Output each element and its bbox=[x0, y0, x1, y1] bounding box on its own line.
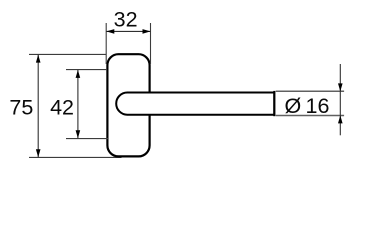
arrowhead 75 bottom bbox=[36, 149, 41, 157]
arrowhead 42 top bbox=[76, 70, 81, 78]
arrowhead 32 left bbox=[106, 29, 114, 34]
extension line left of 32 dimension bbox=[105, 23, 107, 64]
svg-text:Ø 16: Ø 16 bbox=[285, 94, 330, 118]
lever neck with rounded left cap bbox=[116, 93, 274, 115]
arrowhead 42 bottom bbox=[76, 130, 81, 138]
arrowhead 75 top bbox=[36, 55, 41, 63]
dimension line diameter 16 bbox=[339, 64, 341, 135]
svg-text:42: 42 bbox=[50, 95, 74, 119]
dimension line 32 bbox=[106, 30, 150, 32]
dimension line 42 bbox=[77, 70, 79, 138]
extension line right of 32 dimension bbox=[150, 23, 152, 64]
grip bottom line bbox=[276, 115, 344, 117]
extension line bottom of 42 dimension bbox=[66, 138, 108, 140]
arrowhead 32 right bbox=[143, 29, 151, 34]
svg-text:75: 75 bbox=[9, 95, 33, 119]
extension line bottom of 75 dimension bbox=[29, 156, 122, 158]
extension line top of 42 dimension bbox=[66, 69, 107, 71]
rosette plate outline bbox=[107, 54, 149, 156]
svg-text:32: 32 bbox=[114, 7, 138, 31]
arrowhead diameter 16 top bbox=[338, 83, 343, 91]
grip top line bbox=[276, 90, 344, 92]
extension line top of 75 dimension bbox=[29, 53, 107, 55]
grip left end cap line bbox=[273, 91, 275, 116]
arrowhead diameter 16 bottom bbox=[338, 115, 343, 123]
grip fill bbox=[276, 91, 344, 117]
dimension line 75 bbox=[37, 55, 39, 158]
